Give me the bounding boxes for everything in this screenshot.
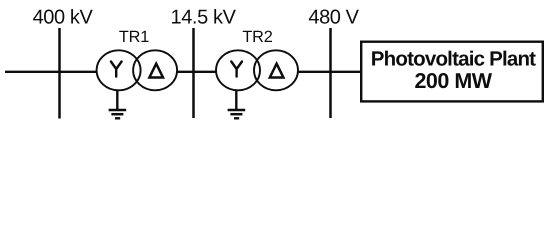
svg-text:TR2: TR2 <box>242 28 272 46</box>
ground TR2 <box>228 91 246 119</box>
Y symbol TR1 <box>111 62 122 77</box>
delta symbol TR1 <box>149 64 163 78</box>
transformer TR1 secondary winding <box>133 50 177 90</box>
Y symbol TR2 <box>231 62 242 77</box>
transformer TR2 primary winding <box>216 50 260 90</box>
ground TR1 <box>109 91 127 119</box>
svg-text:400 kV: 400 kV <box>33 6 94 28</box>
svg-text:Photovoltaic Plant: Photovoltaic Plant <box>371 48 536 71</box>
delta symbol TR2 <box>270 64 284 78</box>
bus 14.5 kV <box>192 28 195 118</box>
wire <box>5 71 97 73</box>
svg-text:TR1: TR1 <box>119 28 149 46</box>
svg-text:14.5 kV: 14.5 kV <box>170 6 236 28</box>
bus 480 V <box>329 28 332 118</box>
svg-text:200 MW: 200 MW <box>414 69 492 93</box>
transformer TR1 primary winding <box>97 50 141 90</box>
transformer TR2 secondary winding <box>254 50 298 90</box>
bus 400 kV <box>58 28 61 119</box>
wire <box>298 71 361 73</box>
svg-text:480 V: 480 V <box>308 6 359 28</box>
box Photovoltaic Plant 200 MW <box>361 42 543 102</box>
wire <box>177 71 217 73</box>
